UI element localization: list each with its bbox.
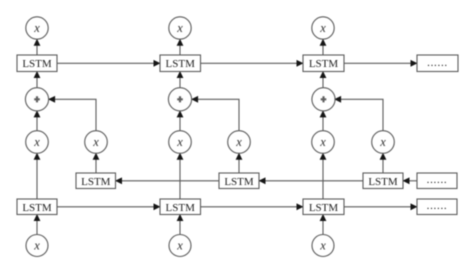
multiply node m1b [85,131,108,154]
wire input x2 to forward LSTM col2 [177,214,184,235]
top LSTM U3 (forward output layer) [303,55,344,72]
svg-text:LSTM: LSTM [81,176,111,188]
svg-text:x: x [33,21,40,35]
svg-text:LSTM: LSTM [309,58,339,70]
svg-text:......: ...... [427,200,448,212]
wire add node col2 up to top LSTM col2 [177,71,184,88]
svg-text:LSTM: LSTM [166,58,196,70]
svg-text:LSTM: LSTM [22,58,52,70]
wire forward LSTM col3 up to multiply node col3 [320,153,327,199]
svg-text:x: x [33,239,40,253]
wire row5 chain col2b to col1b [115,177,219,184]
wire row6 chain col1 to col2 [57,203,161,210]
output node x1 (top) [26,17,48,39]
svg-text:x: x [33,135,40,149]
multiply node m3 [312,131,335,154]
wire row6 chain col3 to dots [344,203,418,210]
svg-text:LSTM: LSTM [22,202,52,214]
wire backward LSTM col1 up to multiply node col1b [93,153,100,173]
svg-text:x: x [176,21,183,35]
ellipsis box row6 [417,199,457,215]
wire row2 chain col3 to dots [344,60,418,67]
wire multiply node col3 up to add node col3 [320,110,327,130]
svg-text:x: x [319,239,326,253]
wire multiply node col2b to add node col2 [191,96,239,131]
multiply node m1 [26,131,49,154]
wire add node col3 up to top LSTM col3 [320,71,327,88]
ellipsis box row5 [417,173,457,189]
svg-text:LSTM: LSTM [309,202,339,214]
wire top LSTM col1 up to output x1 [34,39,41,55]
multiply node m2b [228,131,251,154]
input node x2 (bottom) [169,235,191,257]
wire input x1 to forward LSTM col1 [34,214,41,235]
backward LSTM V1 [76,173,116,189]
wire backward LSTM col2 up to multiply node col2b [236,153,243,173]
add node +3 [312,88,335,111]
svg-text:x: x [176,135,183,149]
add node +1 [25,88,48,111]
forward LSTM W3 [303,199,344,215]
svg-text:......: ...... [427,174,448,186]
wire row5 chain dots to col3b [403,177,418,184]
output node x3 (top) [312,17,334,39]
wire top LSTM col3 up to output x3 [320,39,327,55]
top LSTM U1 (forward output layer) [17,55,57,72]
input node x1 (bottom) [26,235,48,257]
wire backward LSTM col3 up to multiply node col3b [380,153,387,173]
svg-text:x: x [319,21,326,35]
ellipsis box row2 [417,55,458,72]
wire top LSTM col2 up to output x2 [177,39,184,55]
wire add node col1 up to top LSTM col1 [34,71,41,88]
wire multiply node col1b to add node col1 [48,96,96,131]
wire row6 chain col2 to col3 [201,203,304,210]
top LSTM U2 (forward output layer) [160,55,201,72]
wire input x3 to forward LSTM col3 [320,214,327,235]
svg-text:x: x [235,135,242,149]
wire multiply node col3b to add node col3 [334,96,383,131]
input node x3 (bottom) [312,235,334,257]
svg-text:LSTM: LSTM [166,202,196,214]
forward LSTM W1 [17,199,57,215]
wire row2 chain col2 to col3 [201,60,304,67]
svg-text:x: x [379,135,386,149]
svg-text:LSTM: LSTM [368,176,398,188]
forward LSTM W2 [160,199,201,215]
wire forward LSTM col2 up to multiply node col2 [177,153,184,199]
multiply node m2 [169,131,192,154]
multiply node m3b [372,131,395,154]
wire multiply node col2 up to add node col2 [177,110,184,130]
svg-text:x: x [92,135,99,149]
wire row5 chain col3b to col2b [259,177,364,184]
add node +2 [168,88,191,111]
svg-text:......: ...... [427,57,448,69]
wire row2 chain col1 to col2 [57,60,161,67]
svg-text:x: x [319,135,326,149]
backward LSTM V3 [363,173,403,189]
svg-text:x: x [176,239,183,253]
output node x2 (top) [169,17,191,39]
wire forward LSTM col1 up to multiply node col1 [34,153,41,199]
backward LSTM V2 [219,173,259,189]
wire multiply node col1 up to add node col1 [34,110,41,130]
svg-text:LSTM: LSTM [224,176,254,188]
